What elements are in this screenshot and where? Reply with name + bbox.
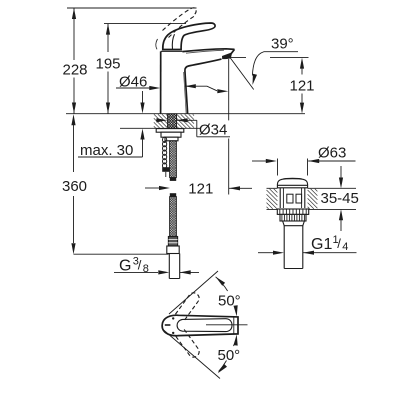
drain deck hatching left xyxy=(267,207,269,209)
svg-text:121: 121 xyxy=(188,181,213,198)
drain deck lines xyxy=(267,187,357,189)
drain flange ring xyxy=(277,209,308,214)
dimension diameter 63 xyxy=(252,145,356,176)
dimension 121 right (spout height) xyxy=(289,58,314,114)
mounting nut xyxy=(161,132,181,137)
50 degree arc lower xyxy=(218,334,238,373)
dimension max. 30 xyxy=(78,91,145,159)
drain tailpipe xyxy=(284,226,303,269)
spout reach jog dimension arrows xyxy=(185,84,229,93)
extension line top (faucet overall height ref) xyxy=(67,7,197,9)
dimension 121 middle (hose offset) xyxy=(145,181,252,198)
counter underside line xyxy=(120,127,201,129)
extension line spout outlet vertical xyxy=(228,59,230,195)
label G 3/8 xyxy=(114,256,199,276)
drain locknut xyxy=(280,214,306,221)
handle top view dashed up position xyxy=(175,291,201,321)
50 degree line lower xyxy=(163,330,220,379)
drain body through deck xyxy=(280,188,305,208)
dimension 360 xyxy=(62,114,169,254)
drain pop-up cap xyxy=(277,178,307,188)
50 degree arc upper xyxy=(216,277,238,317)
dimension 35-45 xyxy=(321,166,359,231)
39 degree stream line xyxy=(230,58,254,90)
dimension diameter 34 arrows xyxy=(156,118,230,138)
label G1 1/4 xyxy=(258,234,357,255)
svg-text:/: / xyxy=(337,236,341,251)
svg-text:/: / xyxy=(138,258,142,273)
threaded shank xyxy=(167,114,176,129)
handle top view solid xyxy=(162,315,238,336)
svg-text:G1: G1 xyxy=(311,236,332,253)
counter hatching right xyxy=(177,126,179,128)
svg-text:39°: 39° xyxy=(271,35,294,52)
handle top view dashed down position xyxy=(175,329,201,359)
flexible hose upper xyxy=(170,141,177,181)
label 39 degrees with leader arc xyxy=(252,35,298,85)
aerator xyxy=(222,52,232,59)
pop-up pull rod chain xyxy=(162,137,169,177)
svg-text:4: 4 xyxy=(342,241,348,253)
faucet body and spout xyxy=(161,49,235,114)
extension line spout outlet horizontal xyxy=(230,56,309,58)
svg-text:360: 360 xyxy=(62,178,87,195)
hose crimp fitting xyxy=(167,237,179,254)
label diameter 46 xyxy=(116,73,160,90)
svg-text:Ø63: Ø63 xyxy=(318,145,346,162)
svg-text:50°: 50° xyxy=(218,293,241,310)
horseshoe washer xyxy=(156,129,184,133)
dimension 195 xyxy=(95,24,120,114)
handle centre line xyxy=(206,324,248,326)
drain taper xyxy=(283,221,305,226)
svg-text:195: 195 xyxy=(95,56,120,73)
faucet cartridge cap xyxy=(156,39,183,51)
counter hatching left xyxy=(154,126,156,128)
drain deck hatching right xyxy=(308,207,310,209)
connection tube G3/8 xyxy=(169,254,179,279)
dimension 228 xyxy=(62,8,87,114)
svg-text:121: 121 xyxy=(289,77,314,94)
flexible hose lower xyxy=(170,193,177,236)
50 degree line upper xyxy=(169,271,218,314)
svg-text:35-45: 35-45 xyxy=(321,190,359,207)
svg-text:max. 30: max. 30 xyxy=(80,142,133,159)
faucet raised lever (dashed) xyxy=(163,8,197,38)
svg-text:228: 228 xyxy=(62,62,87,79)
extension line handle height ref xyxy=(104,23,186,25)
deck line xyxy=(66,113,305,115)
svg-text:8: 8 xyxy=(143,263,149,275)
faucet lever handle xyxy=(163,23,215,50)
svg-text:Ø34: Ø34 xyxy=(199,122,227,139)
svg-text:50°: 50° xyxy=(218,347,241,364)
